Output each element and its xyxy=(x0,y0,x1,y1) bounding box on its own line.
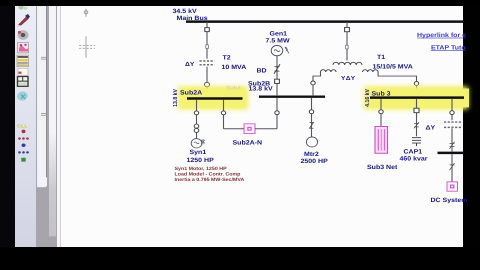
canvas xyxy=(61,6,463,247)
breaker (DC feeder) xyxy=(450,111,454,115)
svg-text:ΔY: ΔY xyxy=(426,125,436,131)
right black pillar xyxy=(463,6,480,247)
svg-text:13.8 kV: 13.8 kV xyxy=(249,85,273,92)
svg-text:Sub2A-N: Sub2A-N xyxy=(233,139,263,146)
node: off-page connector top-left xyxy=(84,9,88,17)
breaker (Syn1 feeder, open circle) xyxy=(194,111,198,115)
overload element on Mtr2 feeder xyxy=(310,122,314,128)
wire: Sub2A tie down xyxy=(223,100,225,129)
wire: tie horizontal right xyxy=(255,128,277,130)
svg-text:BD: BD xyxy=(257,68,267,74)
svg-text:T2: T2 xyxy=(223,55,231,61)
bus Sub 3 highlight xyxy=(364,86,468,109)
letterbox top bar xyxy=(0,0,480,6)
network element Sub3 Net xyxy=(375,126,388,153)
fuse BD xyxy=(274,64,280,74)
wire: T2 to breaker xyxy=(206,67,208,83)
breaker (T1 to Sub2B) xyxy=(311,81,315,85)
toolbar icon: blue dot xyxy=(22,143,26,147)
toolbar icon: dark grid frame xyxy=(18,77,29,87)
contactor (Syn1 feeder, double circle) xyxy=(194,124,199,128)
svg-text:Syn1: Syn1 xyxy=(190,150,207,156)
capacitor CAP1 xyxy=(412,138,421,146)
breaker (Mtr2 feeder) xyxy=(309,110,313,114)
bus Sub2A xyxy=(187,97,243,100)
letterbox bottom bar xyxy=(0,247,480,270)
svg-text:YΔY: YΔY xyxy=(341,76,356,82)
bus DC xyxy=(438,151,465,154)
bus Sub 3 xyxy=(370,96,464,99)
canvas bottom faint line xyxy=(57,243,463,246)
svg-text:Inertia a 0.795 MW-Sec/MVA: Inertia a 0.795 MW-Sec/MVA xyxy=(175,177,245,182)
breaker (tie, Sub2B side) xyxy=(275,111,279,115)
bus Main Bus xyxy=(186,20,464,23)
breaker (tie, Sub2A side) xyxy=(221,111,225,115)
strip A bottom tab xyxy=(39,177,47,186)
wire: Sub 3 to DC transformer xyxy=(451,99,453,120)
svg-text:Sub 3: Sub 3 xyxy=(372,90,391,97)
transformer DC-TX xyxy=(444,122,461,127)
wire: breaker to Sub2A xyxy=(206,87,208,97)
toolbar icon: donut xyxy=(18,30,29,40)
svg-text:460 kvar: 460 kvar xyxy=(400,155,428,162)
toolbar icon: green square xyxy=(21,158,25,162)
fuse on CAP1 feeder xyxy=(414,122,419,128)
wire: DC-TX to DC bus xyxy=(451,128,453,151)
toolbar icon: white sheet with red tick xyxy=(18,68,28,75)
svg-text:34.5 kV: 34.5 kV xyxy=(173,8,197,15)
breaker (T1 primary, square) xyxy=(345,27,350,31)
breaker (Gen1, square) xyxy=(275,79,280,83)
wire: tie horizontal left xyxy=(224,128,245,130)
wire: T1 right leg lower xyxy=(416,85,418,96)
breaker (T1 to Sub 3) xyxy=(414,82,418,86)
toolbar strip background xyxy=(15,6,36,247)
fuse on T1 feeder xyxy=(346,45,349,49)
svg-text:ΔY: ΔY xyxy=(185,61,195,67)
window gutter gray xyxy=(36,6,61,247)
wire: T1 left leg xyxy=(313,72,321,81)
breaker CB (T2 primary) xyxy=(205,28,210,32)
wire: Main Bus to T1 xyxy=(346,22,348,60)
toolbar icon: blue dots row xyxy=(18,151,29,153)
left black pillar xyxy=(0,6,15,247)
fuse on T2 feeder xyxy=(206,45,209,49)
svg-text:10 MVA: 10 MVA xyxy=(222,64,247,70)
toolbar icon: red dots row xyxy=(18,137,29,139)
svg-text:1250 HP: 1250 HP xyxy=(187,157,215,163)
toolbar icon: red dot xyxy=(22,130,26,134)
wire: Sub2B to Mtr2 xyxy=(311,98,313,137)
wire: Main Bus to T2 xyxy=(206,22,208,59)
svg-text:ETAP Tuto: ETAP Tuto xyxy=(431,45,466,51)
generator Gen1 xyxy=(271,45,283,55)
node: Syn1 star mark xyxy=(201,139,205,144)
toolbar icon: pen xyxy=(17,14,30,27)
toolbar icon: teal blob xyxy=(17,91,28,101)
breaker (CAP1 feeder, closed square) xyxy=(414,108,419,112)
wire: Sub 3 to Sub3 Net xyxy=(380,99,382,127)
svg-text:4.16 kV: 4.16 kV xyxy=(364,89,371,107)
svg-text:CAP1: CAP1 xyxy=(404,149,423,155)
node: ghost transformer crosshair xyxy=(79,36,95,57)
wire: DC bus down xyxy=(451,154,453,182)
fuse on DC feeder xyxy=(450,163,455,170)
svg-text:Gen1: Gen1 xyxy=(270,31,288,37)
motor Syn1 xyxy=(191,139,202,148)
svg-text:Hyperlink for e: Hyperlink for e xyxy=(417,31,466,38)
breaker (Sub3 Net feeder) xyxy=(379,110,383,114)
svg-text:15/10/5 MVA: 15/10/5 MVA xyxy=(373,63,413,70)
gutter strip marks xyxy=(41,56,46,59)
svg-text:2500 HP: 2500 HP xyxy=(301,159,329,165)
svg-text:Sub3 Net: Sub3 Net xyxy=(367,164,398,171)
svg-text:T1: T1 xyxy=(377,55,385,61)
canvas left edge shading xyxy=(57,6,60,247)
network element DC System xyxy=(447,182,458,191)
network element Sub2A-N xyxy=(244,124,255,134)
wire: Sub 3 to CAP1 xyxy=(416,99,418,136)
bus Sub2A highlight xyxy=(178,86,248,109)
svg-text:7.5 MW: 7.5 MW xyxy=(266,38,291,44)
svg-text:Mtr2: Mtr2 xyxy=(304,151,319,157)
svg-text:Sub2A: Sub2A xyxy=(180,89,202,96)
toolbar icons xyxy=(0,6,36,247)
toolbar icon: plant (partial) xyxy=(18,5,27,10)
wire: Sub2A to Syn1 xyxy=(196,100,198,139)
svg-text:Sub4: Sub4 xyxy=(226,85,241,91)
wire: T1 right leg xyxy=(378,72,416,81)
toolbar icon: pink box xyxy=(18,43,29,53)
gutter white strip B xyxy=(49,6,56,236)
svg-text:13.8 kV: 13.8 kV xyxy=(172,89,179,107)
wire: Gen1 to Sub2B xyxy=(276,56,278,95)
transformer T2 xyxy=(200,61,215,65)
wire: T1 left leg lower xyxy=(312,85,314,96)
transformer T1 (3-winding) xyxy=(321,62,379,72)
gutter white strip A xyxy=(37,6,47,187)
bus Sub2B xyxy=(259,95,325,98)
toolbar icon: striped table xyxy=(17,55,29,67)
rectifier marks xyxy=(450,142,455,149)
svg-text:DC System: DC System xyxy=(431,197,468,203)
wire: tie up to Sub2B xyxy=(276,98,278,129)
motor Mtr2 xyxy=(306,137,317,147)
node: Gen1 ground mark xyxy=(285,47,289,53)
breaker (T2 secondary, open circle) xyxy=(205,82,210,86)
